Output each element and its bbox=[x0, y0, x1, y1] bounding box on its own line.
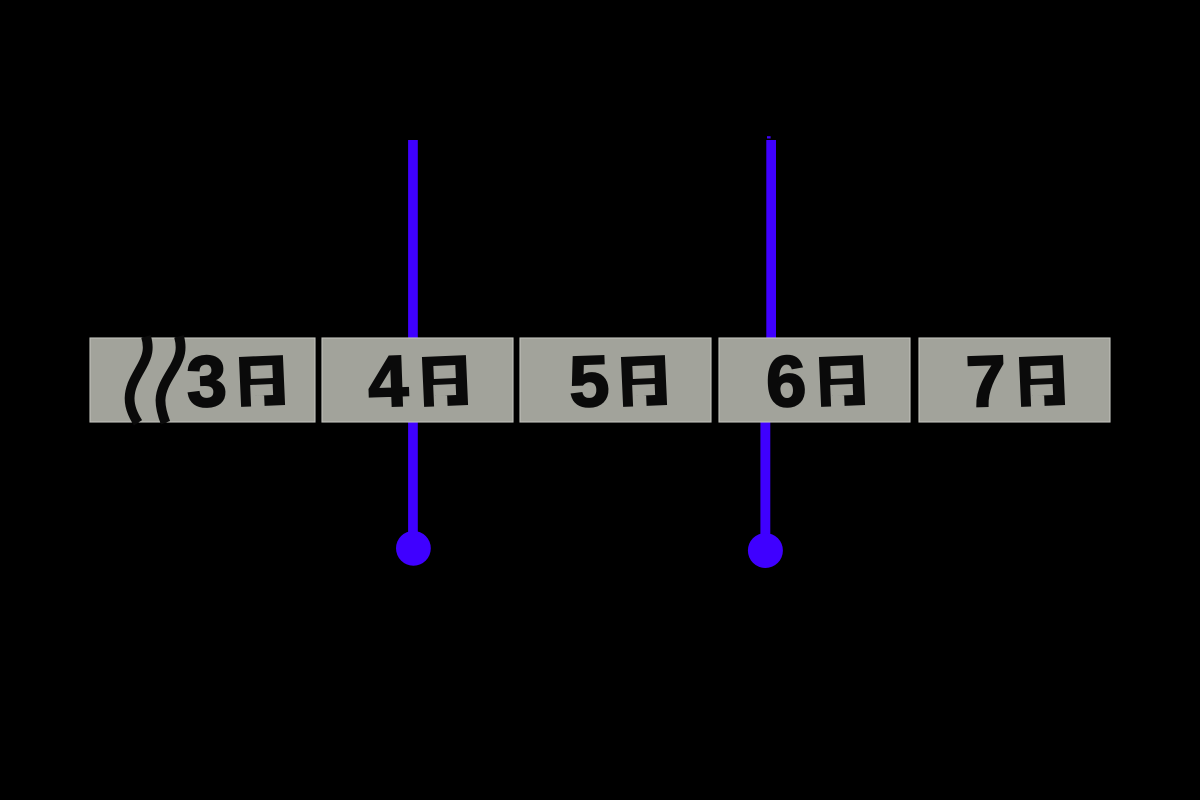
month band cell 5月 bbox=[520, 338, 711, 422]
wire nub artifact above stem 2 bbox=[767, 136, 771, 138]
label 5月 kanji bbox=[621, 355, 667, 407]
axis-break squiggle right bbox=[160, 337, 180, 423]
svg-text:6: 6 bbox=[765, 341, 808, 422]
label 4月 kanji bbox=[422, 355, 468, 407]
node dot 1 (April marker) bbox=[396, 531, 431, 566]
node dot 2 (June marker) bbox=[748, 533, 783, 568]
month band cell 3月 bbox=[90, 338, 315, 422]
month band cell 7月 bbox=[919, 338, 1110, 422]
svg-text:3: 3 bbox=[185, 341, 228, 422]
label 6月 kanji bbox=[819, 355, 865, 407]
wire blue timeline stem 1 (April) bbox=[408, 140, 418, 548]
label 3月 kanji bbox=[239, 355, 285, 407]
month band cell 4月 bbox=[322, 338, 513, 422]
wire blue timeline stem 2 (June) bbox=[760, 140, 776, 552]
label 7月 kanji bbox=[1019, 355, 1065, 407]
month band cell 6月 bbox=[719, 338, 910, 422]
axis-break squiggle left bbox=[130, 337, 148, 423]
svg-text:5: 5 bbox=[568, 341, 611, 422]
svg-text:7: 7 bbox=[965, 341, 1008, 422]
svg-text:4: 4 bbox=[367, 341, 410, 422]
